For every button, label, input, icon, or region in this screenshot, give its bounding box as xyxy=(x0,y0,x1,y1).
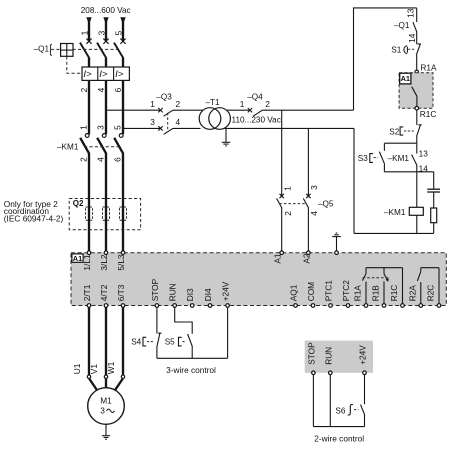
fuse Q2 pole 3 xyxy=(120,207,127,220)
wire L1 from Q1 to KM1 xyxy=(88,80,90,134)
svg-text:STOP: STOP xyxy=(150,278,160,301)
pin 2 of Q1 xyxy=(79,87,89,92)
switch Q5 pole 2 contact with pins 3 4 xyxy=(303,185,319,251)
soft starter A1 gray box xyxy=(71,253,446,306)
terminal 6/T3 xyxy=(116,284,126,307)
svg-text:Q2: Q2 xyxy=(73,199,84,208)
svg-text:14: 14 xyxy=(407,33,417,43)
pin 5 of Q1 xyxy=(114,30,124,35)
svg-text:2: 2 xyxy=(79,87,89,92)
motor terminal W1 xyxy=(115,375,125,391)
svg-text:–Q1: –Q1 xyxy=(34,44,50,53)
contactor KM1 pole 1 xyxy=(80,134,89,251)
svg-text:+24V: +24V xyxy=(221,281,231,301)
label V1 xyxy=(89,364,99,375)
svg-text:A1: A1 xyxy=(272,253,282,264)
svg-text:M1: M1 xyxy=(100,396,112,406)
svg-text:COM: COM xyxy=(306,282,316,301)
label U1 xyxy=(72,363,82,374)
caption 3-wire control xyxy=(166,365,216,375)
relay contact R1 changeover inside box xyxy=(362,268,402,304)
wire tap control supply phase A xyxy=(106,109,160,111)
svg-text:1: 1 xyxy=(150,99,155,109)
label -T1 xyxy=(206,98,221,107)
terminal STOP xyxy=(150,278,160,307)
svg-text:STOP: STOP xyxy=(306,342,316,365)
wire L3 from Q1 to KM1 xyxy=(122,80,124,134)
pushbutton S5 start 3-wire xyxy=(165,334,193,358)
svg-text:–KM1: –KM1 xyxy=(57,143,79,152)
svg-text:PTC1: PTC1 xyxy=(324,280,334,302)
wire RUN drop 3-wire xyxy=(175,307,193,333)
svg-text:I>: I> xyxy=(83,69,92,80)
overcurrent trip unit box I> x3 xyxy=(82,67,129,80)
motor terminal V1 xyxy=(104,375,107,388)
terminal AQ1 xyxy=(289,284,299,307)
wire STOP drop 2-wire xyxy=(312,375,314,427)
terminal 2/T1 xyxy=(82,284,92,307)
fuse Q2 pole 1 xyxy=(86,207,93,220)
terminal PTC1 xyxy=(324,280,334,308)
switch Q4 contact with pins 1 2 xyxy=(240,99,354,116)
svg-text:–Q3: –Q3 xyxy=(156,93,172,102)
svg-text:5/L3: 5/L3 xyxy=(116,254,126,271)
switch Q3 pole 2 contact with pins 3 4 xyxy=(150,117,200,134)
pin 6 of Q1 xyxy=(113,87,123,92)
label -Q3 xyxy=(156,93,172,102)
svg-text:4: 4 xyxy=(175,117,180,127)
ground at T1 secondary xyxy=(222,128,231,146)
pin 5 of KM1 xyxy=(112,125,122,130)
pushbutton S1 emergency stop xyxy=(391,44,421,70)
svg-text:1: 1 xyxy=(78,125,88,130)
breaker Q1 pole 1 contact xyxy=(80,39,92,68)
pin 13 of Q1 auxiliary xyxy=(406,8,416,18)
fuse assembly Q2 dashed box xyxy=(69,199,140,230)
wire motor phase W xyxy=(122,307,124,375)
svg-text:208...600 Vac: 208...600 Vac xyxy=(81,6,131,15)
svg-text:(IEC 60947-4-2): (IEC 60947-4-2) xyxy=(4,213,64,223)
svg-text:RUN: RUN xyxy=(323,347,333,365)
pin 4 of KM1 xyxy=(95,157,105,162)
label -Q1 xyxy=(34,44,52,55)
svg-text:A1: A1 xyxy=(73,254,82,263)
breaker Q1 mechanical link dashed xyxy=(51,48,118,50)
switch Q3 mechanical link dashed xyxy=(167,113,169,131)
svg-text:R1C: R1C xyxy=(420,109,437,119)
terminal 4/T2 xyxy=(99,284,109,307)
pin 1 of Q1 xyxy=(80,30,90,35)
breaker Q1 pole 2 contact xyxy=(97,39,109,68)
terminal COM xyxy=(306,282,316,307)
terminal 1/L1 xyxy=(82,251,92,271)
svg-text:I>: I> xyxy=(99,69,108,80)
svg-text:1/L1: 1/L1 xyxy=(82,254,92,271)
fuse Q2 pole 2 xyxy=(103,207,110,220)
svg-text:S6: S6 xyxy=(335,406,345,415)
svg-text:2-wire control: 2-wire control xyxy=(314,434,364,444)
svg-text:–T1: –T1 xyxy=(206,98,221,107)
svg-text:1: 1 xyxy=(240,99,245,109)
wire control loop left rail xyxy=(353,128,355,233)
switch Q5 mechanical link dashed xyxy=(279,203,305,205)
wire L2 from Q1 to KM1 xyxy=(105,80,107,134)
contactor KM1 pole 3 xyxy=(114,134,123,251)
svg-text:13: 13 xyxy=(406,8,416,18)
label -KM1 aux contact xyxy=(388,154,410,163)
breaker Q1 pole 3 contact xyxy=(114,39,126,68)
supply label 208...600 Vac xyxy=(81,6,131,15)
svg-text:R2C: R2C xyxy=(426,285,436,302)
wire tap control supply phase B xyxy=(123,127,160,129)
resistor of snubber xyxy=(431,208,437,233)
svg-text:A2: A2 xyxy=(301,253,311,264)
wire T1 secondary top to Q4 xyxy=(227,109,250,111)
svg-text:–Q5: –Q5 xyxy=(318,199,334,208)
svg-text:5: 5 xyxy=(112,125,122,130)
contactor KM1 mechanical link dashed xyxy=(84,146,120,148)
wire motor phase V xyxy=(105,307,107,375)
pushbutton S2 stop xyxy=(389,125,421,143)
relay R1 dashed gray box xyxy=(399,73,433,109)
switch S6 run 2-wire xyxy=(335,404,364,426)
terminal A1 control xyxy=(272,251,283,264)
pin 2 of KM1 xyxy=(78,157,88,162)
wire S3 branch bottom joining snubber xyxy=(384,171,433,173)
caption 2-wire control xyxy=(314,434,364,444)
svg-text:R1B: R1B xyxy=(371,285,381,302)
wire S3 branch top xyxy=(384,143,416,151)
supply line L1 with arrow xyxy=(86,17,91,40)
svg-text:R1C: R1C xyxy=(389,285,399,302)
svg-text:4: 4 xyxy=(309,211,319,216)
wire 2-wire bottom rail xyxy=(313,426,364,428)
svg-text:S5: S5 xyxy=(165,338,175,347)
label -Q4 xyxy=(247,93,263,102)
node corner top control loop xyxy=(354,8,417,110)
2-wire control gray box xyxy=(305,341,373,373)
svg-text:13: 13 xyxy=(419,149,429,159)
terminal R1C xyxy=(389,285,404,308)
wire RUN drop 2-wire xyxy=(329,375,331,427)
terminal R1B xyxy=(371,285,386,308)
terminal +24V 2-wire xyxy=(358,345,368,375)
relay contact R2 inside box xyxy=(417,268,439,304)
svg-text:3: 3 xyxy=(97,30,107,35)
pin 3 of Q1 xyxy=(97,30,107,35)
wire +24V drop 3-wire xyxy=(227,307,229,358)
svg-text:A1: A1 xyxy=(401,74,410,83)
svg-text:3/L2: 3/L2 xyxy=(99,254,109,271)
svg-text:1: 1 xyxy=(282,186,292,191)
label 110...230 Vac xyxy=(232,115,281,124)
relay R1 contact inside box xyxy=(412,87,417,107)
switch Q3 pole 1 contact with pins 1 2 xyxy=(150,99,203,116)
svg-text:2/T1: 2/T1 xyxy=(82,284,92,301)
dashed link Q1 box to trip units xyxy=(67,56,82,73)
wire R1C to S2 xyxy=(416,110,418,125)
terminal +24V xyxy=(221,281,231,307)
contactor KM1 pole 2 xyxy=(97,134,106,251)
svg-text:R1A: R1A xyxy=(353,285,363,302)
pushbutton S3 start xyxy=(358,152,385,172)
svg-text:3: 3 xyxy=(100,406,105,416)
pin 3 of KM1 xyxy=(95,125,105,130)
wire A2 control supply drop xyxy=(307,128,309,196)
svg-text:PTC2: PTC2 xyxy=(341,280,351,302)
svg-text:R2A: R2A xyxy=(408,285,418,302)
breaker Q1 auxiliary contact xyxy=(413,8,417,44)
svg-text:–KM1: –KM1 xyxy=(384,208,406,217)
svg-text:+24V: +24V xyxy=(358,345,368,365)
svg-text:V1: V1 xyxy=(89,364,99,375)
terminal R2C xyxy=(426,285,441,308)
label W1 xyxy=(106,361,116,374)
svg-text:2: 2 xyxy=(78,157,88,162)
terminal DI4 xyxy=(203,288,213,307)
wire STOP drop 3-wire xyxy=(156,307,158,333)
label A1 of soft starter xyxy=(72,254,83,263)
svg-text:DI3: DI3 xyxy=(185,288,195,301)
supply line L3 with arrow xyxy=(120,17,125,40)
terminal 5/L3 xyxy=(116,251,126,271)
terminal ground xyxy=(335,251,339,255)
svg-text:2: 2 xyxy=(265,99,270,109)
node R1A xyxy=(415,62,437,73)
label -Q5 xyxy=(318,199,334,208)
svg-text:–KM1: –KM1 xyxy=(388,154,410,163)
node R1C xyxy=(415,106,436,119)
svg-text:W1: W1 xyxy=(106,361,116,374)
svg-text:U1: U1 xyxy=(72,363,82,374)
ground at motor xyxy=(102,424,110,439)
svg-text:–Q4: –Q4 xyxy=(247,93,263,102)
svg-text:3: 3 xyxy=(150,117,155,127)
capacitor of snubber xyxy=(427,172,440,208)
svg-text:S3: S3 xyxy=(358,154,368,163)
ground above A2 terminal area inverted earth xyxy=(332,233,341,251)
contactor KM1 auxiliary contact 13 14 xyxy=(412,143,429,207)
svg-text:R1A: R1A xyxy=(420,62,437,72)
svg-text:110...230 Vac: 110...230 Vac xyxy=(232,115,281,124)
wire control loop bottom xyxy=(354,232,434,234)
switch Q5 pole 1 contact with pins 1 2 xyxy=(277,186,293,251)
terminal PTC2 xyxy=(341,280,351,308)
svg-text:2: 2 xyxy=(283,211,293,216)
svg-text:3: 3 xyxy=(309,185,319,190)
wire motor phase U xyxy=(88,307,90,375)
terminal RUN xyxy=(168,283,178,307)
svg-text:S2: S2 xyxy=(389,127,399,136)
note text: only for type 2 coordination xyxy=(4,199,64,223)
terminal RUN 2-wire xyxy=(323,347,333,375)
svg-text:DI4: DI4 xyxy=(203,288,213,301)
wire 3-wire bottom rail xyxy=(157,357,228,359)
svg-text:3-wire control: 3-wire control xyxy=(166,365,216,375)
terminal R2A xyxy=(408,285,423,308)
svg-text:3: 3 xyxy=(95,125,105,130)
label -Q1 aux xyxy=(394,21,410,30)
motor terminal U1 xyxy=(87,375,97,391)
terminal A2 control xyxy=(301,251,311,264)
svg-text:6: 6 xyxy=(112,157,122,162)
svg-text:6: 6 xyxy=(113,87,123,92)
wire +24V drop 2-wire xyxy=(364,375,366,405)
svg-text:S1: S1 xyxy=(391,46,401,55)
svg-text:4: 4 xyxy=(96,87,106,92)
svg-text:4/T2: 4/T2 xyxy=(99,284,109,301)
svg-text:6/T3: 6/T3 xyxy=(116,284,126,301)
pin 14 of Q1 auxiliary xyxy=(407,33,417,43)
svg-text:S4: S4 xyxy=(131,338,141,347)
wire A1 control supply drop xyxy=(281,110,283,196)
svg-text:RUN: RUN xyxy=(168,283,178,301)
terminal STOP 2-wire xyxy=(306,342,316,375)
svg-text:AQ1: AQ1 xyxy=(289,284,299,301)
wire T1 secondary bottom xyxy=(225,127,355,129)
pin 1 of KM1 xyxy=(78,125,88,130)
pin 6 of KM1 xyxy=(112,157,122,162)
motor M1 xyxy=(88,388,125,425)
pin 4 of Q1 xyxy=(96,87,106,92)
pushbutton S4 stop 3-wire xyxy=(131,333,161,358)
label A1 of relay box xyxy=(400,73,411,84)
terminal 3/L2 xyxy=(99,251,109,271)
svg-text:–Q1: –Q1 xyxy=(394,21,410,30)
breaker Q1 operator box xyxy=(61,44,73,57)
terminal DI3 xyxy=(185,288,195,307)
label -KM1 xyxy=(57,143,79,152)
coil KM1 xyxy=(384,207,423,233)
svg-text:I>: I> xyxy=(115,69,124,80)
svg-text:1: 1 xyxy=(80,30,90,35)
terminal R1A xyxy=(353,285,368,308)
svg-text:2: 2 xyxy=(175,99,180,109)
svg-text:4: 4 xyxy=(95,157,105,162)
supply line L2 with arrow xyxy=(103,17,108,40)
svg-text:5: 5 xyxy=(114,30,124,35)
transformer T1 xyxy=(199,108,230,130)
